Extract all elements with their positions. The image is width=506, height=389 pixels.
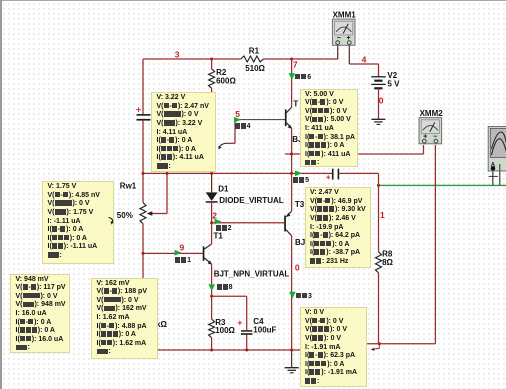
svg-text:R1: R1 — [249, 47, 260, 56]
svg-text:T3: T3 — [295, 200, 305, 209]
svg-text:510Ω: 510Ω — [245, 64, 265, 73]
svg-text:Rw1: Rw1 — [120, 182, 137, 191]
svg-text:5 V: 5 V — [387, 79, 400, 88]
svg-text:8Ω: 8Ω — [382, 258, 393, 267]
svg-text:XMM2: XMM2 — [420, 109, 444, 118]
svg-text:4: 4 — [362, 54, 367, 64]
svg-text:50%: 50% — [117, 211, 133, 220]
svg-text:T1: T1 — [214, 232, 224, 241]
svg-text:T: T — [293, 100, 298, 109]
svg-text:5: 5 — [235, 109, 240, 119]
svg-text:BJT_NPN_VIRTUAL: BJT_NPN_VIRTUAL — [214, 270, 290, 279]
svg-text:0: 0 — [295, 262, 300, 272]
svg-text:600Ω: 600Ω — [216, 77, 236, 86]
svg-text:XMM1: XMM1 — [333, 11, 357, 20]
svg-text:100Ω: 100Ω — [215, 326, 235, 335]
svg-text:100uF: 100uF — [253, 326, 276, 335]
svg-text:3: 3 — [175, 50, 180, 60]
svg-text:DIODE_VIRTUAL: DIODE_VIRTUAL — [219, 196, 284, 205]
svg-text:7: 7 — [293, 59, 298, 69]
svg-text:9: 9 — [180, 243, 185, 253]
svg-text:D1: D1 — [218, 185, 229, 194]
svg-text:0: 0 — [379, 96, 384, 106]
svg-text:1: 1 — [380, 210, 385, 220]
